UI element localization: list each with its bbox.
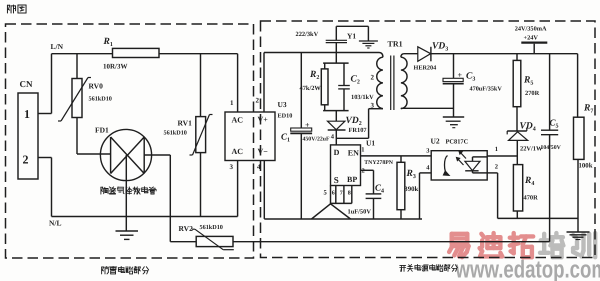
svg-text:3: 3 xyxy=(371,102,375,110)
svg-text:RV0: RV0 xyxy=(89,82,104,91)
svg-text:+24V: +24V xyxy=(524,35,539,42)
svg-text:2: 2 xyxy=(371,74,375,82)
svg-text:10R/3W: 10R/3W xyxy=(103,63,128,71)
svg-text:HER204: HER204 xyxy=(414,65,437,72)
svg-text:TNY278PN: TNY278PN xyxy=(364,160,393,166)
svg-text:561kD10: 561kD10 xyxy=(200,224,223,231)
svg-text:FD1: FD1 xyxy=(95,126,109,135)
svg-text:1uF/50V: 1uF/50V xyxy=(348,209,372,216)
svg-text:104/50V: 104/50V xyxy=(541,145,562,151)
svg-text:CN: CN xyxy=(20,79,33,89)
svg-text:1: 1 xyxy=(24,107,30,121)
svg-text:AC: AC xyxy=(232,147,244,156)
svg-text:3: 3 xyxy=(230,163,234,171)
svg-text:PC817C: PC817C xyxy=(446,139,469,146)
svg-text:470uF/35kV: 470uF/35kV xyxy=(470,86,503,93)
svg-text:561kD10: 561kD10 xyxy=(89,96,112,103)
svg-text:+: + xyxy=(305,120,310,129)
svg-text:2: 2 xyxy=(256,97,260,105)
svg-text:470R: 470R xyxy=(524,195,539,202)
svg-text:270R: 270R xyxy=(525,90,540,97)
svg-text:www.edatop.com: www.edatop.com xyxy=(455,257,600,281)
svg-text:1: 1 xyxy=(495,146,498,153)
svg-text:100k: 100k xyxy=(579,163,593,170)
svg-text:N/L: N/L xyxy=(49,218,62,227)
svg-text:V−: V− xyxy=(258,147,269,156)
svg-text:24V/350mA: 24V/350mA xyxy=(515,25,547,32)
svg-text:8: 8 xyxy=(348,190,351,196)
svg-text:2: 2 xyxy=(23,153,29,167)
svg-text:V+: V+ xyxy=(258,115,269,124)
svg-text:6: 6 xyxy=(332,190,335,196)
svg-text:561kD10: 561kD10 xyxy=(164,130,187,137)
svg-text:2: 2 xyxy=(495,164,498,171)
svg-text:1: 1 xyxy=(361,147,364,154)
svg-text:RV2: RV2 xyxy=(179,224,194,233)
svg-text:103/1kV: 103/1kV xyxy=(351,94,374,101)
svg-text:L/N: L/N xyxy=(51,42,64,51)
svg-text:+: + xyxy=(458,71,463,80)
svg-text:AC: AC xyxy=(232,116,244,125)
svg-text:ED10: ED10 xyxy=(278,113,293,120)
svg-text:EN: EN xyxy=(348,148,359,157)
svg-text:450V/22uF: 450V/22uF xyxy=(303,137,331,143)
svg-text:222/3kV: 222/3kV xyxy=(296,31,319,38)
svg-text:U2: U2 xyxy=(431,137,440,146)
svg-text:BP: BP xyxy=(347,175,357,184)
svg-text:7: 7 xyxy=(340,190,343,196)
svg-text:FR107: FR107 xyxy=(349,127,368,134)
svg-text:TR1: TR1 xyxy=(388,40,403,49)
svg-text:U1: U1 xyxy=(366,138,375,147)
svg-text:U3: U3 xyxy=(278,100,287,109)
svg-text:390k: 390k xyxy=(404,186,418,193)
svg-text:4: 4 xyxy=(257,163,261,171)
svg-text:Y1: Y1 xyxy=(347,32,356,41)
svg-text:1: 1 xyxy=(230,99,234,107)
svg-text:D: D xyxy=(334,148,340,157)
svg-text:S: S xyxy=(334,175,339,185)
svg-text:RV1: RV1 xyxy=(178,119,193,128)
svg-text:47k/2W: 47k/2W xyxy=(300,85,322,92)
